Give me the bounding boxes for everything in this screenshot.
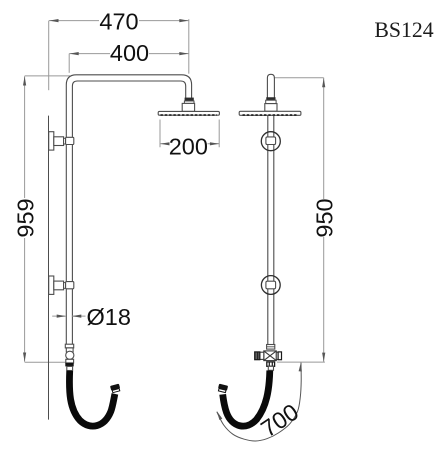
right hose end connector (217, 384, 228, 393)
dimension 959 text (13, 198, 39, 237)
shower head nozzles (left) (161, 114, 218, 116)
dimension 470 line (49, 20, 189, 22)
wall bracket 2 plate (49, 276, 54, 294)
wall line (48, 116, 50, 420)
shower head nozzles (right) (243, 114, 299, 116)
dimension 959 arrows (23, 76, 26, 362)
dimension diameter 18 text (87, 304, 131, 330)
right top collar ring (266, 100, 276, 103)
dimension 950 arrows (322, 78, 325, 362)
dimension 959 extension bottom (25, 361, 66, 363)
diverter valve left knob (255, 352, 264, 360)
wall bracket 2 neck (64, 283, 66, 289)
extension line left of 470 (48, 21, 50, 91)
left bottom fitting dark band (65, 363, 73, 367)
wall bracket 1 stem (54, 137, 64, 146)
wall bracket 1 neck (64, 138, 66, 144)
left bottom fitting collar (65, 344, 73, 348)
dimension 959 extension top (25, 75, 70, 77)
left bottom fitting lower nut (66, 359, 74, 363)
right riser pipe (268, 116, 274, 345)
left bottom fitting hose connector (67, 366, 73, 370)
dimension 400 text (110, 40, 149, 66)
diverter valve collar (267, 345, 275, 350)
left bottom fitting ball (66, 351, 74, 359)
dimension 959 line (24, 76, 26, 362)
shower head disk (right, side view) (239, 111, 301, 115)
dimension 400 line (69, 53, 188, 55)
dimension 700 arc arrows (217, 362, 302, 420)
right mount ring 2 slider block (266, 281, 276, 289)
right mount ring 2 (261, 276, 280, 295)
right mount ring 1 (261, 132, 280, 151)
dimension 200 text (169, 134, 208, 160)
dimension 950 text (312, 198, 338, 237)
dimension 200 extension lines (160, 120, 219, 148)
left hand shower hose (69, 371, 114, 426)
wall bracket 1 plate (49, 132, 54, 150)
dimension 950 extension top (274, 77, 324, 79)
svg-text:400: 400 (110, 40, 149, 66)
right riser pipe upper capsule (267, 74, 274, 97)
right mount ring 1 slider block (266, 137, 276, 145)
shower head attach block (left) (182, 103, 194, 111)
left hose end connector (110, 384, 121, 393)
dimension diameter 18 line (52, 315, 85, 317)
wall bracket 1 clamp (66, 137, 74, 144)
diverter valve body with cross (264, 351, 277, 361)
diverter hose connector (268, 366, 273, 370)
diverter valve lower nut (267, 362, 275, 366)
dimension 950 extension bottom (277, 361, 325, 363)
dimension 700 text (256, 399, 303, 442)
svg-text:470: 470 (99, 9, 138, 35)
wall bracket 2 stem (54, 281, 64, 290)
diverter valve right knob (276, 352, 281, 360)
right top collar band (267, 98, 276, 101)
wall bracket 2 clamp (66, 282, 74, 289)
dimension diameter 18 arrows (57, 315, 82, 318)
dimension 400 arrows (69, 52, 188, 55)
svg-text:950: 950 (312, 198, 338, 237)
shower head disk (left, front view) (158, 111, 219, 115)
left bottom fitting nut (66, 348, 73, 352)
right head attach block (265, 104, 277, 112)
svg-text:Ø18: Ø18 (87, 304, 131, 330)
dimension 700 arc (217, 363, 301, 441)
right hand shower hose (223, 371, 270, 427)
model number label BS124 (374, 18, 433, 42)
shower arm nut (184, 98, 194, 104)
dimension 200 arrows (160, 142, 219, 145)
svg-text:200: 200 (169, 134, 208, 160)
extension line right of 470/400 (188, 19, 190, 73)
dimension 470 text (99, 9, 138, 35)
dimension 950 line (323, 78, 325, 362)
dimension 470 arrows (49, 19, 188, 22)
left riser pipe with top arm (front view) (66, 75, 191, 344)
dimension 200 line (160, 143, 219, 145)
svg-text:BS124: BS124 (374, 18, 433, 42)
svg-text:959: 959 (13, 198, 39, 237)
extension line left of 400 (68, 54, 70, 73)
